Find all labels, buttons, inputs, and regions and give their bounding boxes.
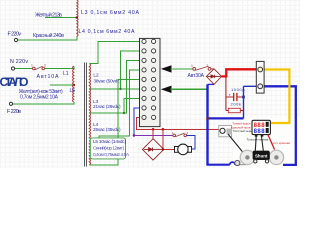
wire tap1 to connector row1: [90, 41, 140, 63]
washer left: [240, 150, 254, 164]
wire tap Желтый 213в: [45, 17, 77, 19]
svg-text:25vac (35vdc): 25vac (35vdc): [93, 127, 121, 132]
svg-text:888: 888: [254, 129, 266, 135]
svg-text:1: 1: [31, 63, 33, 67]
svg-text:L6: L6: [70, 88, 76, 94]
transformer core: [84, 63, 86, 167]
arrow to connector row6: [161, 86, 172, 93]
svg-text:21vac (29vdc): 21vac (29vdc): [93, 104, 121, 109]
wire thin red rail: [225, 78, 227, 111]
svg-text:L3 0,1см 6мм2 40А: L3 0,1см 6мм2 40А: [81, 10, 139, 16]
node bridge2 + junction: [162, 148, 165, 151]
svg-text:СТАЛО: СТАЛО: [0, 75, 29, 89]
secondary winding L3: [89, 89, 90, 113]
shunt body: [253, 151, 270, 160]
capacitor C1 1000u: [226, 93, 244, 101]
wire row7 branch: [124, 98, 140, 113]
transformer winding L1: [73, 66, 74, 85]
washer right: [269, 150, 283, 164]
arrow to connector row4: [161, 65, 172, 72]
svg-text:Толстая черная: Толстая черная: [247, 137, 269, 141]
wire to bridge2 + corner: [162, 129, 164, 149]
wire breaker to L1: [45, 67, 74, 69]
bridge rectifier BR2: [142, 139, 163, 160]
meter side buttons: [266, 122, 269, 127]
svg-text:F 220v: F 220v: [8, 32, 22, 38]
wire tap3 to connector row3: [90, 60, 140, 113]
photo lug eye: [220, 128, 225, 133]
panel meter: [252, 120, 270, 134]
photo wire red to washer: [268, 135, 275, 150]
choke L4 (top left): [77, 18, 78, 37]
wire stub at L1/L6 junction: [50, 84, 74, 86]
node blue junction: [206, 117, 209, 120]
svg-text:Shunt: Shunt: [255, 154, 268, 159]
wire tap2 to connector row6: [90, 88, 140, 90]
svg-text:F 220в: F 220в: [7, 109, 21, 115]
wire blue minus rail from BR1: [208, 83, 215, 85]
photo wire black from lug: [228, 134, 244, 153]
switch fan: [173, 133, 187, 137]
terminal F 220v bottom: [9, 102, 12, 105]
shunt screw left: [254, 160, 257, 163]
callout box L5: [90, 138, 125, 159]
svg-text:L4 0,1см 6мм2 40А: L4 0,1см 6мм2 40А: [79, 29, 135, 35]
svg-text:0,7ом 2,5мм2 10А: 0,7ом 2,5мм2 10А: [20, 95, 59, 101]
wire Авт30А to bridge1: [211, 68, 214, 70]
wire blue thick cross link: [208, 117, 244, 119]
transformer winding L6: [73, 85, 74, 102]
svg-text:2: 2: [206, 64, 208, 68]
wire blue right rail (cap/res): [243, 86, 245, 118]
node tap3 junction: [123, 112, 125, 114]
node C1 to blue rail: [242, 96, 245, 99]
resistor R1 200k: [226, 110, 228, 112]
terminal N 220v: [11, 67, 14, 70]
photo terminal lug box: [219, 126, 232, 137]
svg-text:2: 2: [44, 63, 46, 67]
breaker Авт10А: [33, 66, 45, 70]
wire to bridge2 AC top: [152, 129, 154, 138]
fan motor M1: [175, 147, 179, 153]
breaker Авт30А: [193, 66, 211, 70]
node red junction B: [162, 128, 165, 131]
wire blue bottom to shunt: [206, 164, 229, 166]
secondary winding L4: [89, 113, 90, 141]
photo wire meter to shunt right: [261, 135, 263, 151]
connector block X1: [140, 38, 161, 126]
wire BR2 to fan: [164, 148, 175, 150]
svg-text:888: 888: [254, 123, 266, 129]
svg-text:Красный 240в: Красный 240в: [33, 32, 64, 39]
wire row2 branch: [121, 51, 140, 89]
terminal pin +: [258, 67, 263, 72]
svg-text:L2: L2: [93, 73, 99, 78]
svg-text:1: 1: [191, 64, 193, 68]
connector pins: [142, 39, 156, 119]
secondary winding L5: [89, 141, 90, 165]
svg-text:L5 10vac (14vdc): L5 10vac (14vdc): [93, 139, 126, 144]
wire arrow2 to bridge1: [171, 88, 207, 90]
photo wire gray: [235, 164, 246, 166]
diode D1 inside BR1: [208, 75, 221, 78]
svg-text:Авт30А: Авт30А: [188, 73, 205, 79]
node blue/purple junction: [133, 134, 136, 137]
svg-text:2: 2: [187, 131, 189, 135]
wire fan switch to motor: [187, 135, 195, 149]
wire arrow1 to Авт30А: [171, 68, 193, 70]
node red junction A: [152, 128, 155, 131]
wire row9 red wrap: [136, 117, 219, 129]
bridge rectifier BR1: [206, 69, 221, 85]
secondary winding L2: [89, 64, 90, 89]
svg-text:L1: L1: [63, 71, 69, 77]
svg-text:Толстый черн: Толстый черн: [233, 129, 252, 133]
svg-text:Синий(хор 12вит): Синий(хор 12вит): [93, 145, 124, 151]
wire blue thick terminal to right edge: [264, 86, 296, 165]
wire hop over: [230, 162, 235, 165]
meter bottom plugs: [255, 135, 258, 137]
photo wire meter to shunt left: [254, 135, 257, 151]
wire L6 bottom to terminal: [13, 102, 74, 104]
svg-text:200k: 200k: [231, 102, 242, 107]
wire N 220v: [15, 68, 33, 70]
wire blue to terminal: [244, 85, 257, 87]
terminal pin -: [258, 84, 263, 89]
title СТАЛО: [0, 75, 29, 89]
svg-text:N 220v: N 220v: [10, 59, 28, 65]
svg-text:0,4ом 0,75мм2 4,5А: 0,4ом 0,75мм2 4,5А: [93, 152, 130, 157]
svg-text:Авт10А: Авт10А: [37, 74, 59, 80]
wire purple to fan switch: [134, 134, 173, 136]
wire thick red BR1+ to terminal: [222, 69, 257, 76]
svg-text:Толст красная: Толст красная: [270, 141, 290, 145]
diode D2 inside BR2: [144, 148, 163, 152]
photo background (shunt wiring picture): [233, 118, 300, 169]
node tap2 junction: [119, 88, 121, 90]
terminal F 220v top: [14, 38, 17, 41]
wire yellow from terminal: [262, 70, 289, 124]
terminal block TB1: [256, 61, 264, 93]
wire tap4 to connector row4: [90, 70, 140, 141]
wire F 220v top to coil: [18, 36, 77, 40]
photo bolt bottom left: [235, 160, 240, 165]
node L1/L6 junction: [73, 84, 76, 87]
choke L3 (top left): [77, 0, 78, 18]
shunt screw right: [265, 160, 268, 163]
node tap dot: [76, 16, 79, 19]
wire tap5 to connector row5: [90, 79, 140, 164]
svg-text:Желтый 213в: Желтый 213в: [35, 12, 62, 19]
wire row8 blue: [134, 108, 140, 135]
svg-text:38vac (50vdc): 38vac (50vdc): [93, 79, 121, 84]
